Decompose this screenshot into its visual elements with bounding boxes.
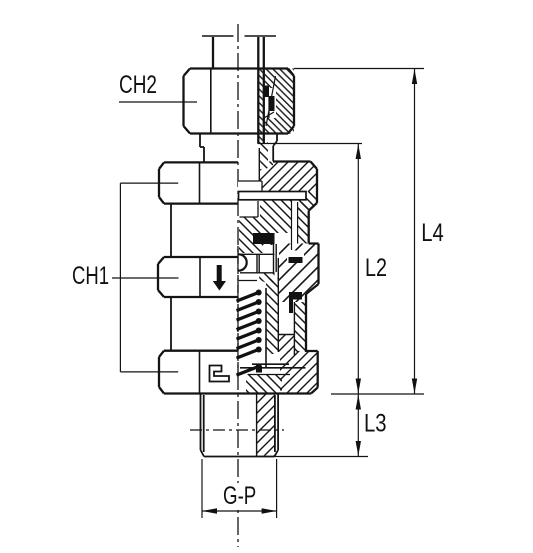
- outer edge: [309, 203, 319, 244]
- centerline horizontal port axis: [190, 429, 284, 431]
- nut CH2 hatch: [264, 69, 294, 134]
- neck outline left: [200, 134, 204, 163]
- hex1 facet: [199, 162, 201, 203]
- locknut section hatch: [239, 200, 292, 253]
- seal5 black: [289, 292, 302, 300]
- hex3 hatch right: [280, 351, 318, 394]
- centerline repaint: [237, 246, 239, 374]
- svg-text:CH1: CH1: [72, 262, 109, 290]
- sleeve forward wedge: [279, 335, 295, 353]
- nut CH2 outline: [184, 69, 295, 134]
- hex2 facet: [199, 257, 201, 297]
- flow arrow: [213, 265, 226, 291]
- cylinder edges: [170, 204, 172, 351]
- thread interface lines: [292, 200, 298, 250]
- svg-text:CH2: CH2: [119, 71, 157, 99]
- centerline vertical: [237, 24, 239, 547]
- spring chamber top line: [239, 280, 257, 282]
- ferrule seal black 2: [269, 96, 275, 111]
- stud bottom: [204, 456, 275, 458]
- seat wall line: [265, 288, 267, 368]
- tube wall right (section): [258, 37, 264, 144]
- tube wall left: [212, 37, 214, 69]
- stud outline right: [275, 394, 279, 457]
- funnel backslash overlay: [246, 374, 282, 393]
- flange hex1 hatch: [260, 162, 318, 192]
- hex3 facet: [199, 351, 201, 394]
- outer ring hatch: [298, 202, 309, 244]
- ferrule seal black 1: [265, 86, 270, 98]
- internal step white: [238, 181, 262, 192]
- cartridge block hatch: [279, 244, 319, 303]
- svg-text:G-P: G-P: [223, 482, 256, 510]
- leader CH1: [112, 183, 179, 372]
- cartridge outline: [306, 244, 319, 353]
- hex2 CH1 nut: [158, 257, 238, 297]
- hex3 right outline: [238, 351, 318, 394]
- hex3 left outline: [159, 351, 238, 394]
- labels: [225, 483, 257, 506]
- nut CH2 facet: [210, 69, 212, 134]
- washer: [239, 192, 307, 200]
- seal3 black: [287, 251, 304, 264]
- body bore wall: [258, 148, 260, 181]
- sleeve boundary lines: [278, 258, 294, 355]
- poppet pocket white: [239, 254, 275, 274]
- ferrule pocket lines: [264, 76, 276, 126]
- spring channel white: [239, 283, 263, 368]
- backup bar black: [289, 300, 293, 314]
- guide line: [274, 233, 277, 273]
- hex1 left outline: [159, 162, 238, 203]
- arrowheads: [202, 69, 417, 514]
- flange right outline: [273, 162, 317, 203]
- neck outline right: [273, 134, 277, 162]
- svg-text:L4: L4: [421, 219, 444, 247]
- white pocket: [240, 201, 259, 217]
- leader CH2: [119, 101, 197, 103]
- seat backslash column: [266, 278, 278, 354]
- seat hatch below pocket: [259, 273, 274, 286]
- pocket outline: [240, 254, 275, 272]
- spring washer: [240, 364, 306, 368]
- svg-text:L2: L2: [365, 254, 387, 282]
- seal capseal black: [253, 233, 275, 244]
- stud bore: [256, 394, 258, 457]
- stud outline left: [201, 394, 205, 457]
- dimension extension lines: [202, 69, 424, 519]
- poppet ball: [239, 254, 247, 270]
- G mark glyph: [210, 366, 230, 382]
- stud hatch: [257, 394, 275, 456]
- tube wall hatch: [258, 68, 264, 143]
- tube break line: [202, 35, 276, 37]
- spring end black: [256, 366, 262, 373]
- svg-text:L3: L3: [364, 410, 387, 438]
- neck below nut hatch: [260, 142, 269, 161]
- spring coils: [238, 293, 259, 375]
- sleeve backslash column: [294, 302, 306, 352]
- sleeve white pocket: [279, 302, 294, 334]
